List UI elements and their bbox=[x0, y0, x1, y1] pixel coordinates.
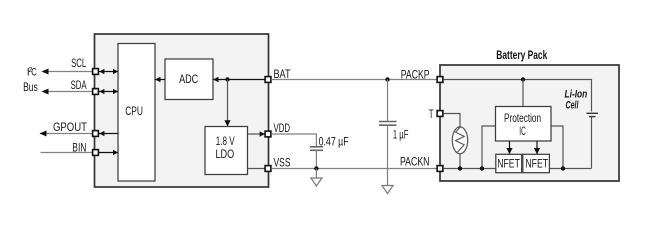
transistor NFET1 bbox=[496, 154, 522, 172]
svg-text:0.47 µF: 0.47 µF bbox=[319, 136, 349, 149]
label Li-Ion Cell bbox=[565, 89, 588, 112]
wire BAT junction down to LDO bbox=[224, 80, 230, 127]
wire SDA internal CPU link bbox=[99, 89, 118, 95]
wire LDO to VDD pin bbox=[248, 131, 266, 137]
svg-text:CPU: CPU bbox=[125, 104, 143, 118]
pin GPOUT bbox=[93, 131, 99, 137]
ground GND1 bbox=[311, 169, 322, 187]
wire PACKP rail internal bbox=[443, 80, 591, 112]
wire VDD rail to decoupling cap bbox=[271, 134, 316, 146]
arrow protection to NFET2 bbox=[534, 141, 540, 154]
label I2C Bus bbox=[23, 65, 38, 94]
CPU U-block bbox=[118, 44, 155, 182]
wire BAT rail to PACKP bbox=[271, 79, 436, 81]
svg-text:LDO: LDO bbox=[216, 147, 235, 161]
svg-text:Bus: Bus bbox=[23, 81, 38, 94]
wire SCL external bbox=[42, 69, 93, 75]
pin SDA bbox=[93, 89, 99, 95]
pin PACKN bbox=[437, 166, 443, 172]
1.8 V LDO block bbox=[205, 127, 248, 175]
junction dot BAT internal bbox=[225, 77, 229, 81]
svg-text:IC: IC bbox=[519, 125, 526, 138]
ADC block bbox=[165, 59, 213, 100]
svg-text:SDA: SDA bbox=[71, 79, 87, 92]
wire protection IC right leg bbox=[551, 126, 563, 169]
wire GPOUT internal CPU link bbox=[99, 131, 118, 137]
svg-text:T: T bbox=[429, 108, 434, 121]
battery pack body bbox=[440, 65, 619, 181]
wire BAT pin to ADC bbox=[213, 77, 265, 83]
svg-text:Battery Pack: Battery Pack bbox=[496, 48, 547, 62]
pin BIN bbox=[93, 150, 99, 156]
wire BIN internal CPU link bbox=[99, 150, 118, 156]
svg-text:VDD: VDD bbox=[274, 122, 291, 135]
pin VSS bbox=[265, 166, 271, 172]
junction dot right leg bbox=[561, 166, 565, 170]
wire SCL internal CPU link bbox=[99, 69, 118, 75]
svg-text:NFET: NFET bbox=[525, 158, 548, 171]
wire protection IC top feed bbox=[522, 80, 524, 107]
svg-text:Protection: Protection bbox=[504, 112, 541, 125]
svg-text:C: C bbox=[31, 66, 37, 78]
svg-text:Cell: Cell bbox=[566, 100, 579, 112]
ground GND2 bbox=[382, 186, 393, 194]
junction dot BAT rail bbox=[385, 77, 389, 81]
svg-text:GPOUT: GPOUT bbox=[53, 121, 87, 134]
junction dot thermistor bbox=[458, 166, 462, 170]
protection IC block bbox=[496, 107, 552, 142]
pin BAT bbox=[265, 77, 271, 83]
svg-text:PACKP: PACKP bbox=[401, 69, 430, 82]
fuel gauge IC body bbox=[95, 34, 269, 187]
wire protection IC left leg bbox=[482, 126, 496, 169]
battery cell B1 bbox=[587, 113, 599, 168]
svg-text:BIN: BIN bbox=[72, 141, 86, 154]
junction dot VSS rail bbox=[314, 166, 318, 170]
wire BIN external bbox=[41, 152, 93, 154]
svg-text:1 µF: 1 µF bbox=[393, 129, 409, 142]
wire LDO to VSS pin bbox=[248, 168, 265, 170]
capacitor C2 1uF bbox=[379, 80, 397, 186]
arrow protection to NFET1 bbox=[506, 141, 512, 154]
thermistor RT bbox=[443, 114, 467, 169]
junction dot left leg bbox=[480, 166, 484, 170]
pin PACKP bbox=[437, 77, 443, 83]
svg-text:NFET: NFET bbox=[497, 158, 520, 171]
svg-text:PACKN: PACKN bbox=[400, 156, 430, 169]
pin T bbox=[437, 111, 443, 117]
pin SCL bbox=[93, 69, 99, 75]
wire SDA external bbox=[42, 89, 93, 95]
wire GPOUT external bbox=[40, 131, 93, 137]
svg-text:SCL: SCL bbox=[71, 57, 86, 70]
transistor NFET2 bbox=[523, 154, 550, 172]
wire VSS rail to PACKN bbox=[271, 168, 436, 170]
pin VDD bbox=[265, 131, 271, 137]
svg-text:VSS: VSS bbox=[274, 156, 291, 169]
svg-text:ADC: ADC bbox=[179, 72, 198, 86]
wire ADC to CPU bbox=[155, 77, 165, 83]
junction dot protection top bbox=[521, 77, 525, 81]
wire PACKN rail internal bbox=[443, 168, 591, 170]
capacitor C1 0.47uF bbox=[310, 147, 323, 169]
